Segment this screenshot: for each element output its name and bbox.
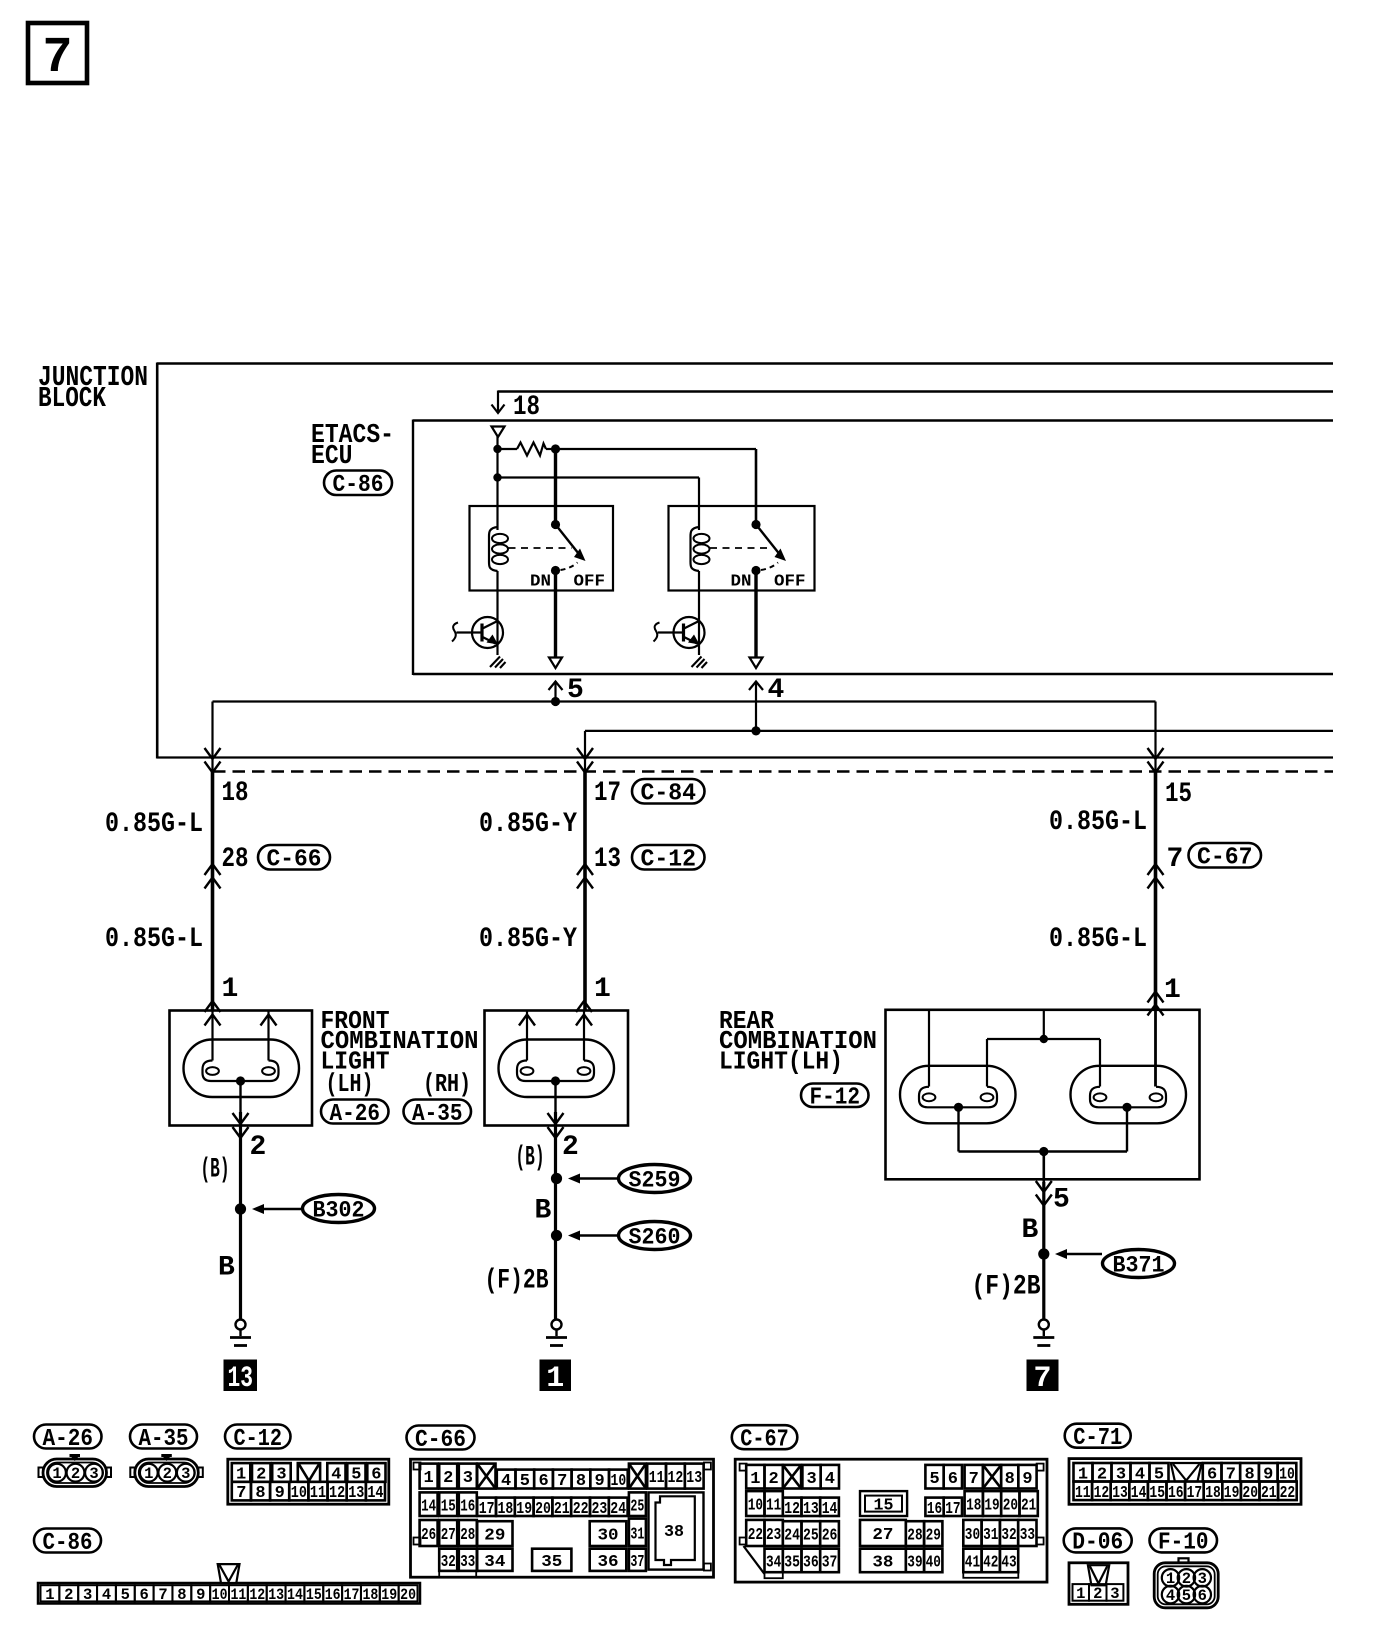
splice callout S259	[568, 1165, 691, 1194]
wire: front RH lamp to ground pin 2	[548, 1081, 564, 1319]
wire label (F)2B middle	[485, 1266, 549, 1297]
svg-text:C-66: C-66	[267, 847, 322, 874]
connector icon A-26	[39, 1456, 112, 1487]
svg-text:28: 28	[907, 1527, 922, 1546]
svg-text:8: 8	[177, 1586, 186, 1604]
svg-text:C-86: C-86	[333, 472, 384, 499]
svg-text:0.85G-Y: 0.85G-Y	[479, 809, 577, 840]
wire: front LH lamp to ground pin 2	[233, 1081, 249, 1319]
svg-text:18: 18	[362, 1586, 378, 1604]
svg-text:1: 1	[1164, 975, 1181, 1006]
connector label A-26 (pinout)	[34, 1425, 102, 1453]
svg-text:5: 5	[1182, 1587, 1191, 1605]
wire: rear internal feed tee	[929, 1010, 1100, 1087]
svg-text:6: 6	[948, 1470, 958, 1489]
svg-text:7: 7	[1033, 1362, 1051, 1396]
connector label C-71 (pinout)	[1065, 1424, 1131, 1452]
bulb: rear combination light, inner	[1071, 1066, 1187, 1124]
ETACS-ECU label	[311, 421, 394, 472]
connector label C-66 (pinout)	[407, 1426, 475, 1454]
svg-text:1: 1	[52, 1465, 61, 1483]
svg-text:10: 10	[212, 1586, 228, 1604]
svg-text:15: 15	[441, 1497, 456, 1516]
pin label 5 (rear light)	[1053, 1185, 1070, 1216]
ground id box 7	[1027, 1360, 1059, 1397]
svg-text:5: 5	[520, 1472, 530, 1491]
wire: left drop to front combination light LH	[205, 748, 221, 1011]
svg-text:(F)2B: (F)2B	[485, 1266, 549, 1297]
wire: relay 1 switch common feed	[554, 449, 557, 525]
lamp pin posts (front RH)	[519, 1001, 592, 1061]
wire: bus from ECU pin 5	[213, 702, 1156, 772]
svg-text:14: 14	[822, 1500, 838, 1519]
node: resistor right junction	[551, 444, 560, 453]
svg-text:13: 13	[348, 1484, 364, 1503]
wire label (B) middle	[516, 1143, 545, 1174]
svg-text:11: 11	[231, 1586, 247, 1604]
svg-text:5: 5	[1053, 1185, 1070, 1216]
svg-text:ECU: ECU	[311, 442, 353, 472]
svg-text:S259: S259	[629, 1167, 681, 1193]
node: splice S259	[551, 1173, 562, 1184]
svg-text:9: 9	[196, 1586, 205, 1604]
connector icon F-10	[1154, 1558, 1218, 1608]
svg-text:2: 2	[250, 1132, 267, 1163]
svg-text:2: 2	[562, 1132, 579, 1163]
svg-text:A-35: A-35	[139, 1426, 189, 1453]
svg-text:7: 7	[1167, 844, 1184, 875]
svg-text:12: 12	[1094, 1484, 1110, 1503]
ground G13 (front LH)	[230, 1320, 251, 1346]
ground G7 (rear)	[1033, 1320, 1054, 1346]
connector icon C-67	[735, 1459, 1047, 1582]
svg-text:33: 33	[1020, 1526, 1035, 1545]
rear combination light LH box (F-12)	[886, 1010, 1200, 1180]
svg-text:16: 16	[325, 1586, 341, 1604]
ground id box 1	[540, 1360, 572, 1397]
svg-text:10: 10	[748, 1497, 763, 1516]
svg-text:37: 37	[822, 1554, 838, 1573]
connector label C-67 (pinout)	[732, 1425, 798, 1453]
node: coil branch junction	[493, 473, 501, 481]
caption: REAR COMBINATION LIGHT (LH)	[719, 1006, 877, 1077]
connector icon C-86	[38, 1564, 420, 1604]
lamp pin post: rear pin 1 entry	[1148, 992, 1164, 1087]
svg-text:20: 20	[1242, 1484, 1258, 1503]
svg-text:23: 23	[592, 1500, 608, 1519]
svg-text:7: 7	[158, 1586, 167, 1604]
connector label C-86 (ECU)	[324, 471, 392, 500]
svg-text:20: 20	[535, 1500, 551, 1519]
wire label 17 / connector C-84 crossing	[594, 778, 705, 809]
connector icon C-66	[411, 1459, 714, 1577]
svg-text:3: 3	[181, 1465, 190, 1483]
svg-text:34: 34	[766, 1554, 781, 1573]
relay K2 switch	[751, 520, 786, 575]
wire: Q1 collector column	[496, 571, 498, 655]
svg-text:19: 19	[516, 1500, 532, 1519]
svg-text:13: 13	[228, 1362, 254, 1396]
junction block label	[38, 361, 148, 415]
relay K1 contact labels DN OFF	[530, 573, 605, 592]
wire: pin18 vertical to resistor and coil	[496, 436, 498, 527]
svg-text:30: 30	[965, 1526, 980, 1545]
relay K2 contact labels DN OFF	[731, 573, 806, 592]
svg-text:10: 10	[291, 1484, 307, 1503]
wire: resistor output to relay 2 common	[556, 449, 757, 525]
connector label A-35	[404, 1100, 472, 1128]
svg-text:25: 25	[630, 1497, 644, 1516]
svg-text:7: 7	[42, 30, 72, 87]
page number box 7	[28, 23, 87, 87]
svg-text:22: 22	[1280, 1484, 1296, 1503]
svg-text:43: 43	[1001, 1554, 1016, 1573]
svg-text:A-26: A-26	[330, 1101, 381, 1128]
relay K2 coil-contact dashed link	[710, 547, 772, 549]
svg-text:11: 11	[649, 1469, 665, 1488]
relay K1 coil	[489, 527, 508, 571]
svg-text:11: 11	[1075, 1484, 1091, 1503]
front combination light RH box (A-35)	[485, 1011, 629, 1126]
svg-text:20: 20	[1003, 1497, 1018, 1516]
svg-text:17: 17	[1187, 1484, 1203, 1503]
connector icon C-12	[228, 1459, 389, 1504]
ground (ECU internal, Q1)	[490, 657, 506, 669]
wire: ECU pin 5 output with up arrow	[549, 681, 563, 702]
svg-text:8: 8	[576, 1472, 586, 1491]
connector label F-12	[801, 1084, 869, 1112]
svg-text:42: 42	[983, 1554, 998, 1573]
svg-text:18: 18	[498, 1500, 514, 1519]
svg-text:OFF: OFF	[774, 573, 806, 592]
svg-text:0.85G-L: 0.85G-L	[105, 924, 203, 955]
pin label 7 / connector C-67 crossing	[1148, 843, 1262, 889]
svg-text:OFF: OFF	[574, 573, 606, 592]
wire: Q2 collector column	[698, 571, 700, 655]
svg-text:14: 14	[421, 1497, 436, 1516]
wire label 0.85G-L (right upper)	[1049, 807, 1147, 838]
svg-text:15: 15	[1149, 1484, 1165, 1503]
svg-text:13: 13	[268, 1586, 284, 1604]
ground id box 13	[224, 1360, 258, 1397]
splice callout B371	[1055, 1249, 1175, 1278]
svg-text:1: 1	[546, 1362, 564, 1396]
svg-text:10: 10	[611, 1472, 627, 1491]
svg-text:7: 7	[557, 1472, 567, 1491]
wire: rear light to ground pin 5	[1036, 1152, 1052, 1320]
pin label 28 / connector C-66 crossing	[205, 844, 331, 889]
svg-text:31: 31	[983, 1526, 998, 1545]
svg-text:4: 4	[1166, 1587, 1175, 1605]
svg-text:7: 7	[236, 1484, 246, 1503]
svg-text:12: 12	[784, 1500, 800, 1519]
pin label 1 (front RH light)	[594, 974, 611, 1005]
svg-text:26: 26	[822, 1527, 838, 1546]
wire label B (left)	[218, 1253, 235, 1284]
svg-text:38: 38	[664, 1523, 684, 1542]
svg-text:12: 12	[329, 1484, 345, 1503]
svg-text:21: 21	[1261, 1484, 1277, 1503]
node: resistor left junction	[493, 445, 501, 453]
node: splice B371	[1038, 1248, 1049, 1259]
svg-text:19: 19	[381, 1586, 397, 1604]
svg-text:3: 3	[806, 1470, 816, 1489]
relay K1 box	[470, 506, 614, 591]
splice callout B302	[252, 1195, 375, 1224]
junction block boundary dashed line	[213, 770, 1333, 772]
wire: branch to relay 2 coil	[498, 478, 700, 528]
bulb: rear combination light, outer	[900, 1066, 1016, 1124]
svg-text:C-86: C-86	[43, 1530, 93, 1557]
svg-text:18: 18	[966, 1497, 981, 1516]
transistor Q2	[654, 617, 705, 648]
pin label 13 / connector C-12 crossing	[577, 844, 705, 889]
svg-text:C-84: C-84	[641, 781, 697, 808]
svg-text:32: 32	[441, 1553, 456, 1572]
svg-text:1: 1	[144, 1465, 153, 1483]
svg-text:36: 36	[597, 1553, 618, 1572]
svg-text:31: 31	[630, 1525, 644, 1544]
connector label A-35 (pinout)	[130, 1425, 197, 1453]
svg-text:14: 14	[1131, 1484, 1147, 1503]
svg-text:1: 1	[1076, 1585, 1085, 1603]
svg-text:A-35: A-35	[412, 1101, 463, 1128]
connector label C-86 (pinout)	[34, 1529, 101, 1557]
ground (ECU internal, Q2)	[692, 657, 708, 669]
connector icon D-06	[1069, 1563, 1128, 1605]
pin label 18 (ECU input)	[513, 392, 540, 423]
svg-text:2: 2	[71, 1465, 80, 1483]
svg-text:39: 39	[907, 1554, 922, 1573]
relay K1 switch	[551, 520, 586, 575]
svg-text:12: 12	[668, 1469, 684, 1488]
svg-text:2: 2	[64, 1586, 73, 1604]
wire: ECU pin 4 output with up arrow	[749, 681, 763, 731]
svg-text:LIGHT(LH): LIGHT(LH)	[719, 1047, 843, 1077]
svg-text:15: 15	[1165, 779, 1192, 810]
svg-text:38: 38	[872, 1554, 893, 1573]
svg-text:C-66: C-66	[415, 1427, 466, 1454]
svg-text:S260: S260	[629, 1224, 681, 1250]
pin label 2 (front LH)	[250, 1132, 267, 1163]
svg-text:C-67: C-67	[740, 1426, 789, 1453]
svg-text:19: 19	[1224, 1484, 1240, 1503]
relay K2 coil	[690, 527, 709, 571]
pin marker: ECU pin 5 triangle	[549, 658, 562, 669]
svg-text:2: 2	[163, 1465, 172, 1483]
svg-text:(B): (B)	[516, 1143, 545, 1174]
svg-text:32: 32	[1001, 1526, 1016, 1545]
svg-text:29: 29	[926, 1527, 941, 1546]
svg-text:1: 1	[594, 974, 611, 1005]
wire: relay DN contact to ECU pin 4	[754, 571, 757, 657]
wire: right drop to rear combination light	[1148, 748, 1164, 1010]
connector label F-10 (pinout)	[1150, 1528, 1218, 1556]
svg-text:1: 1	[750, 1470, 760, 1489]
svg-text:C-12: C-12	[234, 1426, 283, 1453]
junction block outline	[157, 363, 1333, 759]
svg-text:18: 18	[222, 778, 249, 809]
svg-text:17: 17	[479, 1500, 495, 1519]
svg-text:19: 19	[984, 1497, 999, 1516]
svg-text:F-12: F-12	[810, 1085, 861, 1112]
svg-text:B: B	[1022, 1215, 1039, 1246]
svg-text:9: 9	[1022, 1470, 1032, 1489]
svg-text:D-06: D-06	[1072, 1530, 1123, 1557]
svg-text:DN: DN	[530, 573, 551, 592]
pin marker: ECU pin 18 triangle	[492, 427, 505, 438]
svg-text:14: 14	[367, 1484, 383, 1503]
caption: (LH) and (RH)	[326, 1069, 472, 1099]
front combination light LH box (A-26)	[170, 1011, 313, 1126]
svg-text:8: 8	[255, 1484, 265, 1503]
wire: rear lamps common return	[959, 1108, 1128, 1151]
svg-text:22: 22	[748, 1526, 763, 1545]
wire label 0.85G-Y (middle upper)	[479, 809, 577, 840]
svg-text:2: 2	[1093, 1585, 1102, 1603]
wire: ETACS-ECU pin 18 feed	[492, 391, 1334, 414]
svg-text:18: 18	[1205, 1484, 1221, 1503]
svg-text:34: 34	[484, 1553, 505, 1572]
svg-text:5: 5	[121, 1586, 130, 1604]
pin label 1 (front LH light)	[222, 974, 239, 1005]
svg-text:21: 21	[554, 1500, 570, 1519]
svg-text:16: 16	[927, 1500, 942, 1519]
svg-text:37: 37	[630, 1553, 644, 1572]
svg-text:17: 17	[594, 778, 621, 809]
wire label 0.85G-L (left lower)	[105, 924, 203, 955]
connector label C-12 (pinout)	[225, 1425, 291, 1453]
svg-text:3: 3	[1110, 1585, 1119, 1603]
resistor R1	[498, 443, 556, 456]
svg-text:35: 35	[541, 1553, 562, 1572]
bulb: front combination light RH	[499, 1040, 615, 1098]
svg-text:16: 16	[460, 1497, 475, 1516]
svg-text:C-12: C-12	[641, 847, 697, 874]
pin label 2 (front RH)	[562, 1132, 579, 1163]
svg-text:25: 25	[803, 1527, 819, 1546]
node: rear feed junction	[1040, 1035, 1048, 1043]
svg-text:3: 3	[83, 1586, 92, 1604]
svg-text:B302: B302	[313, 1197, 365, 1223]
svg-text:41: 41	[965, 1554, 980, 1573]
splice callout S260	[568, 1222, 691, 1251]
node: pin 4 bus junction	[751, 726, 760, 735]
svg-text:C-67: C-67	[1197, 845, 1253, 872]
svg-text:(B): (B)	[201, 1155, 230, 1186]
svg-text:13: 13	[686, 1469, 702, 1488]
wire label 0.85G-L (left upper)	[105, 809, 203, 840]
pin label 5 (ECU output)	[567, 675, 584, 706]
svg-text:0.85G-L: 0.85G-L	[1049, 924, 1147, 955]
svg-text:F-10: F-10	[1158, 1530, 1209, 1557]
svg-text:(RH): (RH)	[423, 1069, 471, 1099]
wire label (F)2B rear	[972, 1272, 1041, 1303]
svg-text:28: 28	[460, 1526, 475, 1545]
svg-text:3: 3	[463, 1469, 473, 1488]
svg-text:20: 20	[400, 1586, 416, 1604]
svg-text:DN: DN	[731, 573, 752, 592]
wire: middle drop to front combination light RH	[577, 748, 593, 1011]
svg-text:6: 6	[538, 1472, 548, 1491]
svg-text:35: 35	[784, 1554, 800, 1573]
svg-text:3: 3	[89, 1465, 98, 1483]
svg-text:6: 6	[1198, 1587, 1207, 1605]
lamp pin posts (front LH)	[205, 1001, 277, 1061]
svg-text:BLOCK: BLOCK	[38, 382, 106, 415]
pin marker: ECU pin 4 triangle	[750, 658, 763, 669]
svg-text:27: 27	[872, 1526, 893, 1545]
svg-text:21: 21	[1021, 1497, 1036, 1516]
svg-text:13: 13	[803, 1500, 819, 1519]
svg-text:0.85G-L: 0.85G-L	[1049, 807, 1147, 838]
svg-text:4: 4	[825, 1470, 835, 1489]
wire label (B) left	[201, 1155, 230, 1186]
svg-text:(F)2B: (F)2B	[972, 1272, 1041, 1303]
svg-text:2: 2	[769, 1470, 779, 1489]
node: splice B302	[235, 1203, 246, 1214]
wire label 18 (junction block pin)	[222, 778, 249, 809]
svg-text:A-26: A-26	[43, 1426, 94, 1453]
svg-text:(LH): (LH)	[326, 1069, 374, 1099]
relay K2 box	[669, 506, 815, 591]
svg-text:40: 40	[926, 1554, 941, 1573]
svg-text:0.85G-Y: 0.85G-Y	[479, 924, 577, 955]
wire: bus from ECU pin 4	[585, 731, 1333, 772]
transistor Q1	[452, 617, 503, 648]
pin label 4 (ECU output)	[768, 675, 785, 706]
svg-text:22: 22	[573, 1500, 589, 1519]
wire label 0.85G-Y (middle lower)	[479, 924, 577, 955]
connector icon A-35	[130, 1456, 203, 1487]
svg-text:30: 30	[597, 1527, 618, 1546]
svg-text:24: 24	[610, 1500, 626, 1519]
svg-text:C-71: C-71	[1073, 1425, 1122, 1452]
svg-text:15: 15	[306, 1586, 322, 1604]
svg-text:26: 26	[421, 1526, 436, 1545]
svg-text:27: 27	[441, 1526, 456, 1545]
connector label A-26	[321, 1100, 389, 1128]
svg-text:1: 1	[423, 1469, 433, 1488]
ETACS-ECU box outline	[413, 420, 1333, 676]
wire label 15 (junction block pin)	[1165, 779, 1192, 810]
svg-text:4: 4	[102, 1586, 111, 1604]
node: pin 5 bus junction	[551, 697, 560, 706]
svg-text:5: 5	[929, 1470, 939, 1489]
svg-text:4: 4	[501, 1472, 511, 1491]
svg-text:1: 1	[222, 974, 239, 1005]
svg-text:17: 17	[945, 1500, 960, 1519]
wire label B (rear)	[1022, 1215, 1039, 1246]
svg-text:11: 11	[310, 1484, 326, 1503]
node: rear return junction	[1039, 1147, 1048, 1156]
svg-text:15: 15	[874, 1497, 894, 1516]
svg-text:6: 6	[140, 1586, 149, 1604]
svg-text:2: 2	[443, 1469, 453, 1488]
svg-text:18: 18	[513, 392, 540, 423]
bulb: front combination light LH	[184, 1040, 300, 1098]
svg-text:12: 12	[249, 1586, 265, 1604]
svg-text:0.85G-L: 0.85G-L	[105, 809, 203, 840]
wire label B (middle)	[535, 1196, 552, 1227]
svg-text:8: 8	[1005, 1470, 1015, 1489]
svg-text:36: 36	[803, 1554, 819, 1573]
svg-text:23: 23	[766, 1526, 781, 1545]
svg-text:29: 29	[484, 1527, 505, 1546]
connector label D-06 (pinout)	[1064, 1528, 1132, 1556]
svg-text:24: 24	[784, 1527, 800, 1546]
relay K1 coil-contact dashed link	[509, 547, 572, 549]
